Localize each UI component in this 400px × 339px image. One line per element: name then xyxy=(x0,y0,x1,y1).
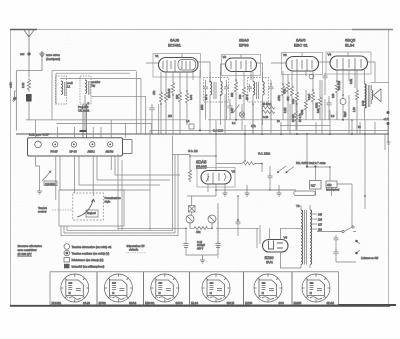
socket 5 EZ80 xyxy=(254,274,282,302)
svg-text:U.C. 22kΩ: U.C. 22kΩ xyxy=(258,152,270,156)
svg-text:HP SU: HP SU xyxy=(70,150,78,153)
volume inner box xyxy=(86,210,98,217)
svg-text:EZ80: EZ80 xyxy=(245,301,253,305)
svg-text:PU BF: PU BF xyxy=(51,150,59,153)
resistor horizontal det xyxy=(242,162,262,165)
resistor antenna xyxy=(27,78,30,92)
tube V3 shield box xyxy=(282,53,323,75)
wires V2 bottom xyxy=(236,94,244,120)
T3 core xyxy=(304,210,306,265)
mains plug terminals xyxy=(355,240,358,243)
T2 secondary coil xyxy=(263,82,265,96)
wires V4 bottom xyxy=(337,95,349,120)
svg-text:50µF: 50µF xyxy=(344,111,347,117)
tube top stubs xyxy=(182,53,348,59)
wire cluster verticals to bus xyxy=(126,72,159,138)
svg-text:Tension alternative (en volts): Tension alternative (en volts) eff. xyxy=(72,245,112,249)
svg-text:V1: V1 xyxy=(155,54,159,58)
cap V3 xyxy=(323,73,328,81)
V6 electrodes xyxy=(269,241,284,250)
under V3 extra resistor xyxy=(304,98,307,112)
wires under V2 xyxy=(236,71,251,85)
mains wires xyxy=(317,232,356,263)
tube V3 side wires xyxy=(271,62,330,63)
ground left xyxy=(37,188,42,194)
horizontal resistor R6 xyxy=(262,106,275,109)
wire pots down xyxy=(186,204,218,257)
svg-text:6V4: 6V4 xyxy=(266,261,273,265)
wires under V4 xyxy=(337,70,355,99)
tube V5 shield box xyxy=(197,168,235,188)
svg-text:P.U. 9V/80 Druk à 7 stuks: P.U. 9V/80 Druk à 7 stuks xyxy=(296,161,326,165)
svg-text:6.3: 6.3 xyxy=(331,115,335,118)
horizontal resistor R7 xyxy=(262,110,275,113)
V5 fan shape xyxy=(206,176,209,182)
svg-text:5.6k: 5.6k xyxy=(349,78,353,84)
small box with X xyxy=(189,206,196,213)
T3 secondary xyxy=(310,210,312,264)
upper bus left part xyxy=(26,119,187,121)
legend row 1 xyxy=(64,244,70,250)
second box xyxy=(326,181,337,188)
socket 3 EBC91 xyxy=(151,274,179,302)
frame top dark segment left xyxy=(10,29,37,31)
resistor V1 e xyxy=(185,91,188,105)
socket 4 EL84 xyxy=(202,274,230,302)
wire osc box bottom rail xyxy=(57,79,152,124)
svg-text:R17: R17 xyxy=(311,184,316,188)
svg-text:U.C. 1M: U.C. 1M xyxy=(188,149,198,153)
wires below strip xyxy=(36,156,116,200)
svg-text:100k: 100k xyxy=(201,104,204,110)
tube V4 shield box xyxy=(326,52,371,74)
svg-text:châssis: châssis xyxy=(129,247,139,251)
wire P1 up xyxy=(187,196,216,215)
tube V1 inner bars xyxy=(182,61,190,69)
choke oval xyxy=(294,191,316,196)
tube V2 xyxy=(226,58,257,72)
svg-text:120: 120 xyxy=(331,93,335,98)
cap mid xyxy=(236,219,241,227)
T1 bottom drops xyxy=(206,100,227,134)
cap left xyxy=(184,244,189,248)
right edge second dot xyxy=(387,122,390,125)
svg-text:127: 127 xyxy=(318,224,323,227)
tube V2 electrodes xyxy=(231,60,251,71)
svg-text:Bull. type 400P: Bull. type 400P xyxy=(29,132,49,136)
earth terminal xyxy=(40,52,45,62)
piles resistor box R17 xyxy=(310,181,322,190)
scan noise overlay xyxy=(0,0,1,1)
output transformer coil xyxy=(365,84,367,108)
resistor V3 d xyxy=(311,90,314,104)
tube V3 xyxy=(286,57,319,72)
svg-text:R6 47kΩ: R6 47kΩ xyxy=(262,103,272,106)
svg-text:EL84: EL84 xyxy=(345,43,355,48)
wire V5 up xyxy=(215,134,217,171)
bus junction dots xyxy=(199,129,201,131)
resistor V1 c xyxy=(171,81,174,95)
svg-text:règle: règle xyxy=(105,200,111,204)
under V4 wires b xyxy=(337,70,357,134)
svg-text:180: 180 xyxy=(238,94,242,99)
tube V5 xyxy=(201,171,231,185)
wires V1 bottom xyxy=(161,95,187,134)
right edge mark xyxy=(387,125,391,144)
svg-text:T3: T3 xyxy=(296,204,300,208)
T1 primary coil xyxy=(210,82,212,96)
right edge terminal dot xyxy=(387,111,390,114)
wire to ground xyxy=(36,166,40,188)
upper bus line xyxy=(208,119,389,121)
svg-text:EZ80: EZ80 xyxy=(265,256,274,260)
svg-text:V3: V3 xyxy=(283,53,287,57)
legend row 2 xyxy=(64,250,70,256)
resistor V2 b xyxy=(242,85,245,99)
svg-text:ECH81: ECH81 xyxy=(168,43,182,48)
svg-text:ECH81: ECH81 xyxy=(52,301,62,305)
svg-text:470k: 470k xyxy=(277,95,281,101)
wire osc dark drop xyxy=(83,104,87,138)
resistor V1 a xyxy=(159,90,162,104)
battery wires right xyxy=(270,184,352,227)
svg-text:6AJ8: 6AJ8 xyxy=(83,301,90,305)
strip terminal 2 xyxy=(53,142,58,147)
trimmer cap arrow xyxy=(80,103,89,112)
resistor V1 b xyxy=(164,90,167,104)
svg-text:V6: V6 xyxy=(284,236,288,240)
wires mid going right xyxy=(60,175,180,190)
bus tick wires xyxy=(216,100,375,134)
tube V1 side wires xyxy=(146,62,210,82)
oscillator outer wire rect xyxy=(52,71,130,120)
IF transformer T2 dashed box xyxy=(248,78,269,103)
cap V1 bottom xyxy=(150,105,155,113)
socket 1 ECH81 xyxy=(61,274,89,302)
osc coil L2 xyxy=(85,80,87,94)
svg-text:Interrupteur: Interrupteur xyxy=(326,188,340,192)
svg-text:+2.5: +2.5 xyxy=(384,117,390,121)
svg-text:Tension continue (en volts) (: Tension continue (en volts) (V) xyxy=(72,252,110,256)
wires under V3 xyxy=(283,71,313,90)
resistor V1 d xyxy=(178,90,181,104)
wires above strip xyxy=(36,120,112,138)
svg-text:110: 110 xyxy=(318,229,322,232)
svg-text:C.18: C.18 xyxy=(263,116,269,119)
svg-text:6DA5: 6DA5 xyxy=(327,301,335,305)
tube V1 shield box xyxy=(153,54,201,78)
main bus light line xyxy=(150,129,389,131)
pot P1 xyxy=(186,215,194,223)
ground rail mid xyxy=(216,189,296,191)
tube V2 shield box xyxy=(222,55,261,76)
socket 6 EM85 xyxy=(302,274,330,302)
svg-text:22k: 22k xyxy=(175,94,179,99)
legend row 4 xyxy=(64,264,70,269)
nested loop verticals xyxy=(61,136,178,236)
T2 core xyxy=(257,82,259,99)
resistor V4 a xyxy=(335,81,338,95)
V5 feed line xyxy=(173,154,191,156)
output transformer core xyxy=(368,85,370,107)
svg-text:0.02: 0.02 xyxy=(231,108,234,113)
tube V6 rectifier xyxy=(263,240,289,253)
frame bottom thick line xyxy=(10,305,390,307)
svg-text:EBC 91: EBC 91 xyxy=(294,43,309,48)
svg-text:EF93: EF93 xyxy=(239,43,249,48)
svg-text:(Aardpunt): (Aardpunt) xyxy=(46,57,60,61)
T2 primary coil xyxy=(253,82,255,96)
wire osc top rail xyxy=(52,70,136,72)
long verticals to bottom xyxy=(118,130,150,230)
svg-text:68k: 68k xyxy=(230,92,234,97)
T2 wires xyxy=(253,72,271,104)
svg-text:100k: 100k xyxy=(316,102,319,108)
T3 taps xyxy=(310,214,317,229)
svg-text:245: 245 xyxy=(318,214,323,217)
resistor x288 xyxy=(286,80,289,94)
antenna terminal dot xyxy=(27,52,30,55)
svg-text:Résistance (en ohms) (Ω): Résistance (en ohms) (Ω) xyxy=(72,258,104,262)
svg-text:6AV6: 6AV6 xyxy=(176,301,183,305)
under V2 grid cap xyxy=(228,103,233,111)
svg-text:2.2k: 2.2k xyxy=(21,82,25,88)
wire V5 down xyxy=(208,184,216,196)
svg-text:Hg: Hg xyxy=(92,84,96,88)
svg-text:R.C 2200: R.C 2200 xyxy=(213,130,224,133)
T1 core xyxy=(214,82,216,99)
tube V2 side wires xyxy=(221,63,263,82)
svg-text:4.7k: 4.7k xyxy=(251,125,256,128)
svg-text:20 000 Ω/V: 20 000 Ω/V xyxy=(18,252,32,256)
svg-text:6V4: 6V4 xyxy=(279,301,285,305)
svg-text:Intensité (en milliampères): Intensité (en milliampères) xyxy=(72,265,105,269)
V6 wires xyxy=(257,225,301,268)
strip terminal 4 xyxy=(90,142,95,147)
T1 left cap xyxy=(203,84,208,92)
T3 top wires xyxy=(296,205,310,268)
strip terminal 5 xyxy=(108,142,113,147)
svg-text:secteur: secteur xyxy=(38,210,47,214)
pot gang dash line xyxy=(217,203,219,259)
junction dots scatter xyxy=(160,79,353,229)
resistor V3 a xyxy=(281,84,284,98)
svg-text:47k: 47k xyxy=(152,90,156,95)
svg-text:0.04: 0.04 xyxy=(189,94,193,100)
svg-text:0.4: 0.4 xyxy=(232,122,236,125)
bus segment mid xyxy=(280,125,330,127)
detector line xyxy=(216,163,242,165)
IF transformer T1 dashed box xyxy=(204,78,229,103)
under V3 extra wires xyxy=(290,80,325,120)
tube V1 xyxy=(159,58,199,73)
under V4 resistor b xyxy=(355,88,358,102)
resistor left of V5 xyxy=(190,156,216,168)
svg-text:115: 115 xyxy=(168,115,172,118)
antenna xyxy=(24,30,34,53)
osc coil L1 dashed box xyxy=(56,76,67,104)
label pointer line xyxy=(52,209,72,211)
coil core blob xyxy=(26,94,32,102)
strip terminal 1 xyxy=(35,141,42,148)
resistor V3 b xyxy=(290,84,293,98)
T2 caps xyxy=(247,84,252,92)
svg-text:AM FM: AM FM xyxy=(106,150,114,153)
tube V3 electrodes xyxy=(292,59,312,71)
svg-text:EM85: EM85 xyxy=(196,165,208,170)
svg-text:EM85: EM85 xyxy=(294,301,302,305)
wire antenna down xyxy=(28,54,30,77)
svg-text:V5: V5 xyxy=(232,170,236,174)
svg-text:R9 4.7k: R9 4.7k xyxy=(299,113,302,122)
osc coil L1 xyxy=(61,81,63,95)
grid circle V3 xyxy=(309,74,314,79)
heater line xyxy=(118,227,259,229)
wires to grounds xyxy=(225,183,279,190)
nested loop corner wires xyxy=(61,231,178,236)
wires V3 bottom xyxy=(283,81,325,131)
mains caps xyxy=(334,235,339,243)
svg-text:R8 26k: R8 26k xyxy=(292,114,295,122)
svg-text:EL84: EL84 xyxy=(191,301,198,305)
pot P2 xyxy=(208,215,216,223)
svg-text:V2: V2 xyxy=(223,55,227,59)
cathode circle V4 xyxy=(340,99,346,105)
output transformer wires xyxy=(365,70,390,120)
svg-text:Lichtnet ca 4W: Lichtnet ca 4W xyxy=(361,256,379,260)
volume outer box xyxy=(59,190,124,226)
CH-REC box xyxy=(44,181,57,186)
svg-text:Ch. oscil.: Ch. oscil. xyxy=(78,109,90,113)
resistor x320 xyxy=(318,95,321,109)
svg-text:6BA6: 6BA6 xyxy=(129,301,137,305)
tube V4 xyxy=(330,56,368,70)
resistor between pots xyxy=(190,223,212,230)
socket row boxes xyxy=(50,272,339,305)
svg-text:1.6: 1.6 xyxy=(186,120,190,123)
wire osc segment dark xyxy=(80,130,87,132)
svg-text:0.1µF: 0.1µF xyxy=(308,93,311,100)
tube V5 electrodes xyxy=(208,173,226,185)
resistor V3 c xyxy=(295,90,298,104)
pot arrow CH-REC xyxy=(42,171,51,181)
socket 2 EF93 xyxy=(104,274,132,302)
switch contacts clavier xyxy=(278,166,294,172)
svg-text:Regl.vol: Regl.vol xyxy=(87,212,96,215)
junction box small xyxy=(189,124,194,129)
border frame xyxy=(11,30,389,307)
wire osc bottom xyxy=(26,95,135,131)
resistor V2 a xyxy=(234,80,237,94)
right long vertical to mains xyxy=(365,134,385,209)
tube V1 inner box xyxy=(178,60,196,71)
volume dashed box xyxy=(73,193,104,220)
svg-text:1.2k: 1.2k xyxy=(353,107,356,112)
svg-text:Z=5k: Z=5k xyxy=(362,100,365,106)
grounds row under bus xyxy=(222,190,227,196)
resistor x296 xyxy=(294,109,297,123)
cap battery xyxy=(268,173,273,181)
svg-text:47k: 47k xyxy=(286,96,290,101)
svg-text:450 V: 450 V xyxy=(197,247,204,250)
frame top medium segment right xyxy=(352,29,393,31)
main bus dark line xyxy=(16,133,389,135)
connector strip box xyxy=(28,138,123,156)
tube V4 electrodes xyxy=(337,58,361,70)
det wire down xyxy=(245,135,262,172)
speaker voice coil xyxy=(372,90,373,100)
tube V4 side wire xyxy=(368,62,376,82)
mains switch xyxy=(330,227,352,232)
T1 secondary coil xyxy=(221,82,223,96)
cap right xyxy=(216,244,221,248)
T1 wires xyxy=(206,72,227,104)
connector strip notch xyxy=(123,140,133,154)
tube V1 electrodes xyxy=(163,60,175,72)
svg-text:47Ω: 47Ω xyxy=(196,231,201,234)
diagonal wire to lamp xyxy=(233,104,242,130)
under V3 cap2 xyxy=(327,100,332,108)
T2 bottom drops xyxy=(253,100,271,134)
wire battery xyxy=(307,134,332,196)
chassis dot left xyxy=(13,97,16,100)
svg-text:MF 2: MF 2 xyxy=(246,94,249,100)
svg-text:L2: L2 xyxy=(67,85,71,89)
svg-text:ant: ant xyxy=(20,52,24,56)
strip terminal 3 xyxy=(71,142,76,147)
svg-text:220: 220 xyxy=(318,219,323,222)
svg-text:6BQ5: 6BQ5 xyxy=(227,301,235,305)
svg-text:CH-REC: CH-REC xyxy=(45,182,55,186)
svg-text:EBC91: EBC91 xyxy=(145,301,155,305)
osc coil L1 core xyxy=(65,82,67,96)
svg-text:V4: V4 xyxy=(328,53,332,57)
svg-text:2.2M: 2.2M xyxy=(284,108,287,113)
wire earth branch xyxy=(16,62,42,131)
frame bottom-right extra line xyxy=(338,304,396,306)
svg-text:EF93: EF93 xyxy=(99,301,107,305)
osc coil L2 dashed box xyxy=(80,76,91,104)
volume pot arc xyxy=(77,199,95,217)
svg-text:AMPLI: AMPLI xyxy=(88,150,96,153)
speaker horn xyxy=(374,89,382,102)
ground under caps xyxy=(200,257,205,263)
svg-text:1M 0.05: 1M 0.05 xyxy=(167,88,171,98)
svg-text:47Ω: 47Ω xyxy=(327,184,332,187)
T1 right cap xyxy=(224,84,229,92)
svg-text:0.01: 0.01 xyxy=(317,108,320,113)
svg-text:25: 25 xyxy=(277,120,280,123)
osc coil L2 core xyxy=(89,81,91,95)
wire antenna coil to bus xyxy=(28,102,30,120)
power transformer T3 primary xyxy=(301,210,303,264)
svg-text:R14 120: R14 120 xyxy=(338,80,341,90)
lamp circle near T2 xyxy=(239,112,244,117)
wires under V1 xyxy=(161,70,200,131)
svg-text:2.2k: 2.2k xyxy=(291,98,295,104)
svg-text:Potentiomètre: Potentiomètre xyxy=(105,196,122,200)
legend row 3 xyxy=(64,258,70,263)
svg-text:Tension: Tension xyxy=(38,206,47,210)
svg-text:MF 1: MF 1 xyxy=(205,94,208,100)
